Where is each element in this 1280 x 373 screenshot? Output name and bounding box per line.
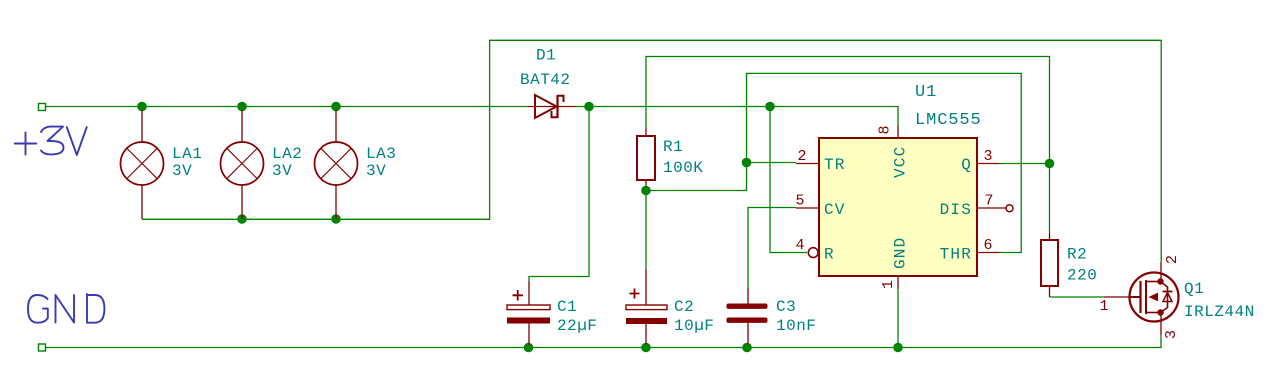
svg-text:10nF: 10nF [776, 317, 816, 335]
svg-text:GND: GND [892, 237, 910, 269]
svg-text:100K: 100K [663, 159, 703, 177]
svg-text:BAT42: BAT42 [520, 71, 571, 89]
svg-text:1: 1 [880, 280, 897, 289]
svg-text:7: 7 [984, 193, 993, 210]
svg-text:3: 3 [983, 148, 992, 165]
svg-text:220: 220 [1067, 267, 1097, 285]
svg-text:22µF: 22µF [557, 317, 597, 335]
svg-text:3V: 3V [366, 162, 386, 180]
svg-text:2: 2 [797, 148, 806, 165]
svg-text:3V: 3V [172, 162, 192, 180]
svg-text:6: 6 [983, 237, 992, 254]
svg-text:LMC555: LMC555 [915, 111, 982, 130]
svg-text:8: 8 [877, 125, 894, 134]
svg-text:U1: U1 [915, 83, 937, 102]
svg-text:R1: R1 [663, 138, 683, 156]
svg-text:THR: THR [940, 246, 972, 264]
svg-text:3: 3 [1163, 330, 1180, 339]
svg-text:LA2: LA2 [272, 145, 302, 163]
svg-text:CV: CV [824, 201, 846, 219]
svg-text:VCC: VCC [892, 146, 910, 178]
svg-text:R2: R2 [1067, 246, 1087, 264]
svg-text:C1: C1 [557, 298, 577, 316]
svg-text:C2: C2 [674, 298, 694, 316]
svg-text:TR: TR [824, 156, 846, 174]
svg-text:5: 5 [795, 193, 804, 210]
svg-text:DIS: DIS [940, 201, 972, 219]
svg-text:Q: Q [961, 156, 972, 174]
svg-text:D1: D1 [536, 47, 556, 65]
svg-text:C3: C3 [776, 298, 796, 316]
svg-text:LA3: LA3 [366, 145, 396, 163]
svg-text:R: R [824, 246, 835, 264]
svg-text:1: 1 [1099, 298, 1108, 315]
svg-text:IRLZ44N: IRLZ44N [1184, 303, 1255, 321]
svg-text:10µF: 10µF [674, 317, 714, 335]
svg-text:LA1: LA1 [172, 145, 202, 163]
svg-text:4: 4 [795, 237, 804, 254]
svg-text:2: 2 [1164, 255, 1181, 264]
svg-text:3V: 3V [272, 162, 292, 180]
svg-text:Q1: Q1 [1184, 280, 1204, 298]
